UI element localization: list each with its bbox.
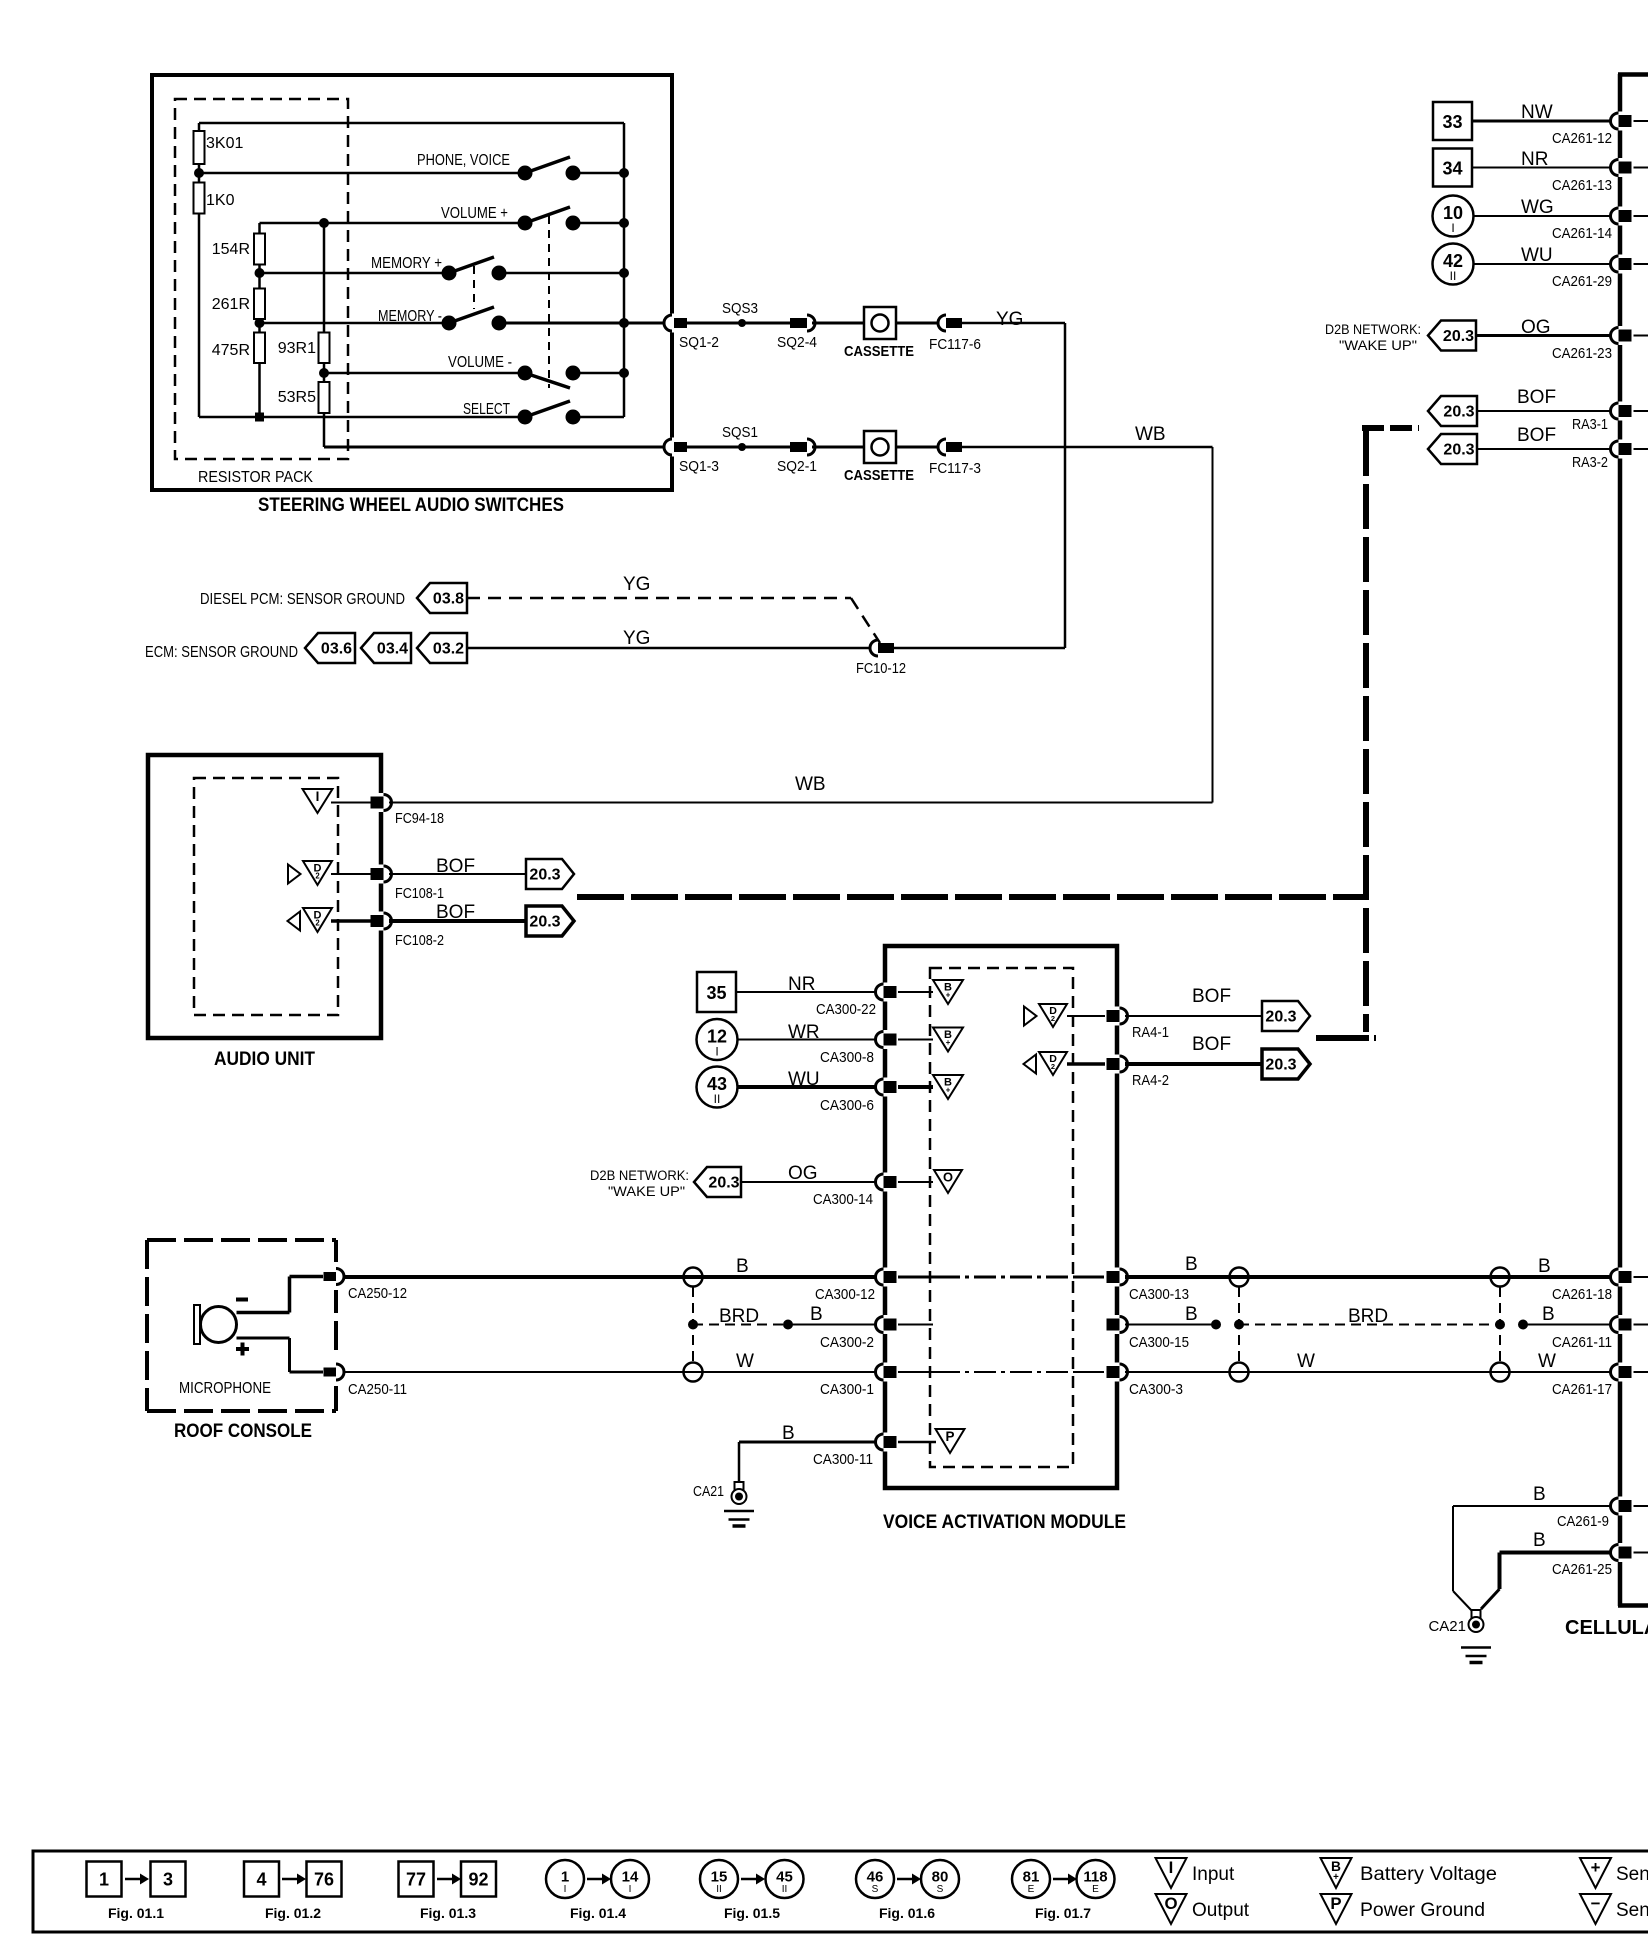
svg-text:33: 33 — [1442, 112, 1462, 132]
svg-text:WU: WU — [1521, 245, 1553, 266]
svg-text:O: O — [943, 1170, 953, 1185]
svg-text:E: E — [1092, 1884, 1099, 1895]
svg-text:CA300-12: CA300-12 — [815, 1286, 875, 1303]
svg-text:P: P — [946, 1429, 955, 1444]
svg-text:CA261-18: CA261-18 — [1552, 1286, 1612, 1303]
svg-text:+: + — [1591, 1858, 1601, 1877]
svg-text:261R: 261R — [212, 296, 250, 313]
svg-text:B: B — [1185, 1304, 1198, 1325]
svg-text:CA250-11: CA250-11 — [348, 1381, 407, 1398]
svg-text:CA261-29: CA261-29 — [1552, 273, 1612, 290]
svg-text:D2B NETWORK:: D2B NETWORK: — [1325, 322, 1421, 337]
svg-text:BRD: BRD — [1348, 1306, 1388, 1327]
svg-text:WG: WG — [1521, 197, 1554, 218]
svg-text:YG: YG — [623, 574, 650, 595]
svg-text:20.3: 20.3 — [1443, 328, 1474, 345]
svg-text:20.3: 20.3 — [1443, 442, 1474, 459]
svg-text:20.3: 20.3 — [1265, 1057, 1296, 1074]
svg-text:81: 81 — [1023, 1869, 1040, 1886]
svg-text:B: B — [782, 1423, 795, 1444]
svg-text:42: 42 — [1443, 251, 1463, 271]
svg-text:Fig. 01.4: Fig. 01.4 — [570, 1905, 626, 1921]
svg-text:I: I — [316, 789, 320, 804]
svg-text:II: II — [716, 1884, 722, 1895]
svg-text:118: 118 — [1083, 1869, 1107, 1886]
svg-text:MICROPHONE: MICROPHONE — [179, 1380, 271, 1397]
svg-text:W: W — [1297, 1351, 1315, 1372]
svg-text:RA3-1: RA3-1 — [1572, 416, 1608, 433]
svg-text:53R5: 53R5 — [278, 389, 316, 406]
svg-text:SELECT: SELECT — [463, 401, 510, 418]
svg-text:12: 12 — [707, 1027, 727, 1047]
svg-text:2: 2 — [1051, 1062, 1055, 1071]
svg-text:CA261-12: CA261-12 — [1552, 130, 1612, 147]
svg-text:34: 34 — [1442, 159, 1462, 179]
svg-text:2: 2 — [315, 919, 320, 928]
svg-text:Fig. 01.3: Fig. 01.3 — [420, 1905, 476, 1921]
svg-text:OG: OG — [1521, 317, 1551, 338]
svg-text:"WAKE UP": "WAKE UP" — [1339, 338, 1417, 353]
svg-text:W: W — [1538, 1351, 1556, 1372]
svg-text:WR: WR — [788, 1022, 820, 1043]
svg-text:D2B NETWORK:: D2B NETWORK: — [590, 1168, 689, 1183]
svg-text:14: 14 — [622, 1869, 639, 1886]
svg-text:SQ2-4: SQ2-4 — [777, 334, 817, 351]
svg-text:45: 45 — [776, 1869, 793, 1886]
svg-text:I: I — [1451, 221, 1454, 235]
svg-text:Fig. 01.6: Fig. 01.6 — [879, 1905, 935, 1921]
svg-text:03.6: 03.6 — [321, 641, 352, 658]
svg-text:YG: YG — [996, 309, 1023, 330]
svg-text:CA261-11: CA261-11 — [1552, 1334, 1612, 1351]
svg-text:CA300-11: CA300-11 — [813, 1451, 873, 1468]
svg-text:1: 1 — [561, 1869, 569, 1886]
svg-text:SQS1: SQS1 — [722, 424, 758, 441]
svg-text:92: 92 — [468, 1870, 488, 1890]
svg-text:WU: WU — [788, 1069, 820, 1090]
svg-text:BOF: BOF — [436, 902, 475, 923]
svg-text:CA300-13: CA300-13 — [1129, 1286, 1189, 1303]
svg-text:E: E — [1028, 1884, 1035, 1895]
svg-text:Power Ground: Power Ground — [1360, 1900, 1485, 1921]
svg-text:CA300-3: CA300-3 — [1129, 1381, 1183, 1398]
svg-text:CA261-9: CA261-9 — [1557, 1513, 1609, 1530]
svg-text:WB: WB — [1135, 424, 1166, 445]
svg-text:77: 77 — [406, 1870, 426, 1890]
svg-text:WB: WB — [795, 774, 826, 795]
svg-text:VOICE ACTIVATION MODULE: VOICE ACTIVATION MODULE — [883, 1512, 1126, 1533]
svg-text:475R: 475R — [212, 342, 250, 359]
svg-text:CA300-14: CA300-14 — [813, 1191, 873, 1208]
svg-text:CA261-17: CA261-17 — [1552, 1381, 1612, 1398]
svg-text:1: 1 — [99, 1870, 109, 1890]
svg-text:W: W — [736, 1351, 754, 1372]
svg-text:FC117-6: FC117-6 — [929, 336, 981, 353]
svg-text:CELLULAR TELEPHONE: CELLULAR TELEPHONE — [1565, 1617, 1648, 1639]
svg-text:STEERING WHEEL AUDIO SWITCHES: STEERING WHEEL AUDIO SWITCHES — [258, 495, 564, 516]
svg-text:BOF: BOF — [436, 856, 475, 877]
svg-text:B: B — [1533, 1484, 1546, 1505]
svg-text:PHONE, VOICE: PHONE, VOICE — [417, 152, 510, 169]
svg-text:VOLUME +: VOLUME + — [441, 205, 508, 222]
svg-text:DIESEL PCM: SENSOR GROUND: DIESEL PCM: SENSOR GROUND — [200, 591, 405, 608]
svg-text:Input: Input — [1192, 1864, 1235, 1885]
svg-text:O: O — [1164, 1894, 1177, 1913]
svg-text:−: − — [1591, 1894, 1601, 1913]
svg-text:20.3: 20.3 — [529, 867, 560, 884]
svg-text:80: 80 — [932, 1869, 949, 1886]
svg-text:NR: NR — [1521, 149, 1548, 170]
svg-text:10: 10 — [1443, 203, 1463, 223]
svg-text:AUDIO UNIT: AUDIO UNIT — [214, 1049, 315, 1070]
svg-text:MEMORY +: MEMORY + — [371, 255, 442, 272]
svg-text:VOLUME -: VOLUME - — [448, 354, 512, 371]
svg-text:RESISTOR PACK: RESISTOR PACK — [198, 469, 313, 486]
svg-text:CA261-14: CA261-14 — [1552, 225, 1612, 242]
svg-text:3K01: 3K01 — [206, 135, 243, 152]
svg-text:FC117-3: FC117-3 — [929, 460, 981, 477]
svg-text:BRD: BRD — [719, 1306, 759, 1327]
svg-text:20.3: 20.3 — [1265, 1009, 1296, 1026]
svg-text:RA4-1: RA4-1 — [1132, 1024, 1169, 1041]
svg-text:93R1: 93R1 — [278, 340, 316, 357]
svg-text:ECM: SENSOR GROUND: ECM: SENSOR GROUND — [145, 644, 298, 661]
svg-text:1K0: 1K0 — [206, 192, 235, 209]
svg-text:NR: NR — [788, 974, 815, 995]
svg-text:154R: 154R — [212, 241, 250, 258]
svg-text:Battery Voltage: Battery Voltage — [1360, 1864, 1497, 1885]
svg-text:CA261-13: CA261-13 — [1552, 177, 1612, 194]
svg-text:3: 3 — [163, 1870, 173, 1890]
svg-text:CA21: CA21 — [693, 1483, 724, 1500]
svg-text:CA300-22: CA300-22 — [816, 1001, 876, 1018]
svg-text:II: II — [714, 1092, 721, 1106]
svg-text:43: 43 — [707, 1074, 727, 1094]
svg-text:CA21: CA21 — [1428, 1618, 1466, 1635]
svg-text:RA4-2: RA4-2 — [1132, 1072, 1169, 1089]
svg-text:76: 76 — [314, 1870, 334, 1890]
svg-text:S: S — [872, 1884, 879, 1895]
svg-text:20.3: 20.3 — [529, 914, 560, 931]
svg-text:I: I — [1169, 1858, 1174, 1877]
svg-text:BOF: BOF — [1192, 986, 1231, 1007]
svg-text:B: B — [1542, 1304, 1555, 1325]
svg-text:B: B — [1185, 1254, 1198, 1275]
svg-text:S: S — [937, 1884, 944, 1895]
svg-text:Fig. 01.2: Fig. 01.2 — [265, 1905, 321, 1921]
svg-text:CA300-1: CA300-1 — [820, 1381, 874, 1398]
svg-text:FC108-1: FC108-1 — [395, 885, 444, 902]
svg-text:CA300-15: CA300-15 — [1129, 1334, 1189, 1351]
svg-text:ROOF CONSOLE: ROOF CONSOLE — [174, 1421, 312, 1442]
svg-text:SQ1-2: SQ1-2 — [679, 334, 719, 351]
svg-text:03.2: 03.2 — [433, 641, 464, 658]
svg-text:Fig. 01.5: Fig. 01.5 — [724, 1905, 780, 1921]
svg-text:CA261-23: CA261-23 — [1552, 345, 1612, 362]
svg-text:SQ2-1: SQ2-1 — [777, 458, 817, 475]
svg-text:Fig. 01.7: Fig. 01.7 — [1035, 1905, 1091, 1921]
svg-text:+: + — [1333, 1872, 1339, 1883]
svg-text:CA300-8: CA300-8 — [820, 1049, 874, 1066]
svg-text:15: 15 — [711, 1869, 728, 1886]
svg-text:OG: OG — [788, 1163, 818, 1184]
svg-text:4: 4 — [256, 1870, 266, 1890]
svg-text:SQ1-3: SQ1-3 — [679, 458, 719, 475]
svg-text:Sensor Supply: Sensor Supply — [1616, 1864, 1648, 1885]
svg-text:BOF: BOF — [1517, 387, 1556, 408]
svg-text:"WAKE UP": "WAKE UP" — [608, 1184, 685, 1199]
svg-text:BOF: BOF — [1517, 425, 1556, 446]
svg-text:FC10-12: FC10-12 — [856, 660, 906, 677]
svg-text:BOF: BOF — [1192, 1034, 1231, 1055]
svg-text:03.4: 03.4 — [377, 641, 408, 658]
svg-text:I: I — [715, 1045, 718, 1059]
svg-text:+: + — [946, 1086, 951, 1095]
svg-text:RA3-2: RA3-2 — [1572, 454, 1608, 471]
svg-text:2: 2 — [315, 872, 320, 881]
svg-text:B: B — [1538, 1256, 1551, 1277]
svg-text:CASSETTE: CASSETTE — [844, 467, 914, 484]
svg-text:II: II — [782, 1884, 788, 1895]
svg-text:I: I — [564, 1884, 567, 1895]
svg-text:NW: NW — [1521, 102, 1553, 123]
svg-text:FC94-18: FC94-18 — [395, 810, 444, 827]
svg-text:B: B — [810, 1304, 823, 1325]
svg-text:2: 2 — [1051, 1014, 1055, 1023]
svg-text:CA250-12: CA250-12 — [348, 1285, 407, 1302]
svg-text:Sensor Ground: Sensor Ground — [1616, 1900, 1648, 1921]
svg-text:CASSETTE: CASSETTE — [844, 343, 914, 360]
svg-text:B: B — [1533, 1530, 1546, 1551]
svg-text:SQS3: SQS3 — [722, 300, 758, 317]
svg-text:CA300-2: CA300-2 — [820, 1334, 874, 1351]
svg-text:CA300-6: CA300-6 — [820, 1097, 874, 1114]
svg-text:35: 35 — [706, 983, 726, 1003]
svg-text:MEMORY -: MEMORY - — [378, 308, 442, 325]
svg-text:20.3: 20.3 — [1443, 404, 1474, 421]
svg-text:+: + — [946, 1038, 951, 1047]
svg-text:YG: YG — [623, 628, 650, 649]
svg-text:I: I — [629, 1884, 632, 1895]
svg-text:II: II — [1450, 269, 1457, 283]
svg-text:B: B — [736, 1256, 749, 1277]
svg-text:+: + — [946, 991, 951, 1000]
svg-text:03.8: 03.8 — [433, 591, 464, 608]
svg-text:FC108-2: FC108-2 — [395, 932, 444, 949]
svg-text:P: P — [1330, 1894, 1341, 1913]
svg-text:46: 46 — [867, 1869, 884, 1886]
svg-text:CA261-25: CA261-25 — [1552, 1561, 1612, 1578]
svg-text:20.3: 20.3 — [708, 1175, 739, 1192]
svg-text:Output: Output — [1192, 1900, 1250, 1921]
svg-text:Fig. 01.1: Fig. 01.1 — [108, 1905, 164, 1921]
